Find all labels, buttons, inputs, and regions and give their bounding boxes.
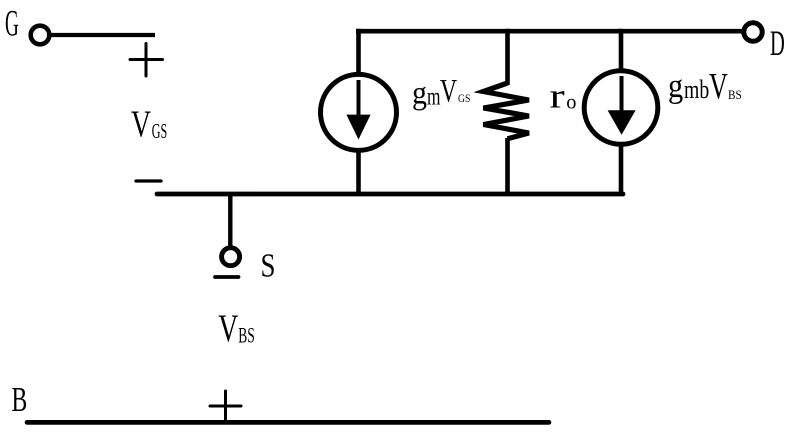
svg-text:V: V	[440, 74, 457, 110]
wire source rail	[157, 192, 623, 197]
svg-text:D: D	[770, 23, 785, 63]
svg-text:r: r	[550, 77, 566, 116]
svg-text:GS: GS	[458, 91, 470, 105]
wire branch1 bottom	[356, 150, 361, 196]
svg-text:G: G	[5, 4, 19, 45]
terminal G circle	[31, 26, 50, 45]
resistor ro zigzag	[483, 83, 529, 139]
svg-text:g: g	[668, 68, 683, 105]
svg-text:V: V	[218, 307, 238, 350]
wire drain top rail	[356, 29, 742, 34]
current source U1 arrow	[346, 80, 370, 140]
wire branch3 bottom	[619, 144, 624, 196]
svg-text:BS: BS	[238, 323, 255, 348]
current source U1 gmVGS circle	[321, 74, 397, 150]
wire branch2 top	[505, 29, 510, 85]
plus sign VBS	[210, 391, 241, 420]
svg-text:V: V	[709, 65, 728, 106]
minus sign under S	[215, 275, 239, 279]
svg-text:o: o	[566, 90, 576, 114]
svg-text:V: V	[131, 103, 151, 145]
svg-text:m: m	[427, 82, 441, 110]
wire branch1 top	[356, 29, 361, 74]
svg-text:S: S	[261, 248, 276, 285]
wire branch2 bottom	[505, 138, 510, 196]
current source U2 gmbVBS circle	[584, 71, 658, 145]
wire bulk rail	[27, 420, 549, 425]
svg-text:g: g	[412, 76, 427, 112]
wire branch3 top	[619, 29, 624, 72]
svg-text:mb: mb	[684, 75, 709, 104]
current source U2 arrow	[608, 76, 636, 135]
svg-text:BS: BS	[728, 87, 742, 102]
wire S branch	[228, 194, 232, 247]
terminal S circle	[222, 248, 240, 266]
wire G terminal to gate	[44, 33, 155, 37]
minus sign VGS	[136, 179, 161, 182]
svg-text:B: B	[12, 381, 28, 419]
svg-text:GS: GS	[152, 119, 168, 143]
terminal D circle	[744, 23, 762, 41]
plus sign VGS	[130, 44, 163, 77]
